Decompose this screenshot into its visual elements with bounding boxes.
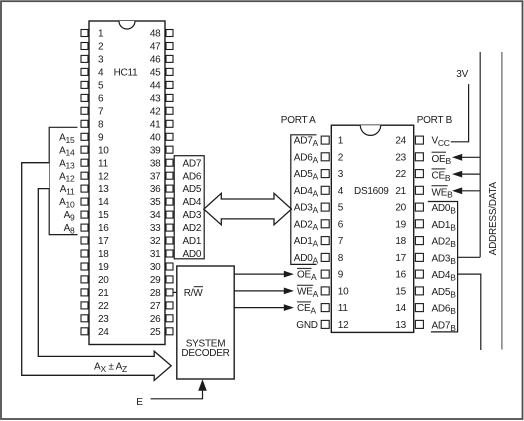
svg-text:AD6A: AD6A	[294, 152, 319, 164]
svg-text:AD5B: AD5B	[432, 287, 457, 299]
svg-text:32: 32	[150, 236, 161, 247]
svg-text:18: 18	[395, 236, 406, 247]
svg-text:3: 3	[98, 55, 104, 66]
svg-text:A9: A9	[64, 210, 75, 222]
svg-text:36: 36	[150, 184, 161, 195]
svg-text:27: 27	[150, 301, 161, 312]
svg-text:16: 16	[395, 270, 406, 281]
net label AD0	[183, 249, 202, 260]
svg-text:11: 11	[338, 303, 349, 314]
wire E to decoder	[151, 379, 207, 399]
svg-text:14: 14	[98, 197, 109, 208]
wire AD4B-AD7B group to bus	[458, 274, 481, 350]
svg-text:24: 24	[395, 136, 406, 147]
net label CEA (port A control)	[297, 302, 316, 316]
svg-text:6: 6	[98, 94, 104, 105]
net label AD1A	[294, 236, 319, 248]
svg-text:34: 34	[150, 210, 161, 221]
svg-text:9: 9	[338, 270, 344, 281]
U2 right pin pads 24-13	[415, 136, 423, 328]
label PORT B	[417, 115, 453, 126]
svg-text:VCC: VCC	[432, 136, 450, 148]
svg-text:46: 46	[150, 55, 161, 66]
svg-text:OEB: OEB	[432, 154, 452, 166]
svg-text:14: 14	[395, 303, 406, 314]
label PORT A	[281, 115, 316, 126]
svg-text:25: 25	[150, 327, 161, 338]
net label GND (port A control)	[296, 320, 318, 331]
address/data bus line 1	[479, 52, 481, 257]
IC U2 DS1609 body	[331, 125, 413, 332]
svg-text:2: 2	[338, 152, 344, 163]
net label AD6	[183, 171, 202, 182]
net label A14	[59, 145, 75, 157]
net label AD6B (port B)	[432, 304, 457, 316]
svg-text:3: 3	[338, 169, 344, 180]
svg-text:33: 33	[150, 223, 161, 234]
bus box AD7-AD0 (HC11 multiplexed bus)	[174, 156, 204, 259]
net label AD3B (port B)	[432, 254, 457, 266]
svg-text:43: 43	[150, 94, 161, 105]
net label AD0A	[294, 253, 319, 265]
svg-text:CEA: CEA	[297, 303, 316, 315]
svg-text:17: 17	[98, 236, 109, 247]
net label OEB (port B)	[432, 152, 452, 166]
net label VCC (port B)	[432, 136, 450, 148]
svg-text:40: 40	[150, 132, 161, 143]
svg-text:11: 11	[98, 158, 109, 169]
net label AD7	[183, 158, 202, 169]
svg-text:28: 28	[150, 288, 161, 299]
svg-text:20: 20	[98, 275, 109, 286]
svg-text:8: 8	[98, 119, 104, 130]
net label A11	[60, 184, 75, 196]
svg-text:44: 44	[150, 81, 161, 92]
svg-text:A15: A15	[59, 132, 75, 144]
net label AD7A	[294, 136, 319, 148]
U1 left pin numbers 1-24	[98, 29, 109, 338]
svg-text:10: 10	[338, 287, 349, 298]
system decoder label	[181, 339, 229, 359]
svg-text:6: 6	[338, 219, 344, 230]
svg-text:AD0B: AD0B	[432, 203, 457, 215]
wire CEA from decoder	[234, 304, 294, 311]
svg-text:39: 39	[150, 145, 161, 156]
svg-text:7: 7	[338, 236, 344, 247]
svg-text:A12: A12	[59, 171, 75, 183]
U2 left pin pads 1-12	[321, 136, 329, 328]
svg-text:48: 48	[150, 29, 161, 40]
net label A13	[59, 158, 75, 170]
bus bracket AD0B-AD7B	[428, 202, 458, 332]
net label AD7B (port B)	[432, 321, 457, 333]
svg-text:19: 19	[98, 262, 109, 273]
svg-text:AD2B: AD2B	[432, 237, 457, 249]
bus bracket AD7A-AD0A	[291, 135, 317, 265]
svg-text:AD3B: AD3B	[432, 254, 457, 266]
power 3V supply	[456, 69, 468, 80]
svg-text:17: 17	[395, 253, 406, 264]
svg-text:4: 4	[338, 186, 344, 197]
net label AD2B (port B)	[432, 237, 457, 249]
svg-text:2: 2	[98, 42, 104, 53]
svg-text:15: 15	[98, 210, 109, 221]
svg-text:16: 16	[98, 223, 109, 234]
svg-text:23: 23	[395, 152, 406, 163]
svg-text:WEB: WEB	[432, 187, 454, 199]
net label A8	[64, 223, 75, 235]
svg-text:AD5: AD5	[183, 184, 202, 195]
svg-text:A10: A10	[59, 197, 75, 209]
svg-text:8: 8	[338, 253, 344, 264]
U1 HC11 label	[114, 68, 139, 79]
net label AD2	[183, 223, 202, 234]
bidirectional data bus arrow	[204, 193, 292, 225]
svg-text:13: 13	[98, 184, 109, 195]
net label AD5	[183, 184, 202, 195]
svg-text:AD6B: AD6B	[432, 304, 457, 316]
net label E	[136, 397, 143, 408]
svg-text:26: 26	[150, 314, 161, 325]
svg-text:AD4: AD4	[183, 197, 202, 208]
svg-text:21: 21	[98, 288, 109, 299]
svg-text:37: 37	[150, 171, 161, 182]
svg-text:A14: A14	[59, 145, 75, 157]
svg-text:19: 19	[395, 219, 406, 230]
net label AD1B (port B)	[432, 220, 457, 232]
net label AD4B (port B)	[432, 270, 457, 282]
net label AX +/- AZ	[94, 362, 127, 374]
svg-text:5: 5	[338, 203, 344, 214]
svg-text:AD4A: AD4A	[294, 186, 319, 198]
wire VCC to 3V	[451, 84, 469, 142]
net label AD1	[183, 236, 202, 247]
svg-text:12: 12	[98, 171, 109, 182]
svg-text:20: 20	[395, 203, 406, 214]
svg-text:AD1: AD1	[183, 236, 202, 247]
svg-text:AD3A: AD3A	[294, 203, 319, 215]
svg-text:A11: A11	[60, 184, 75, 196]
net label A10	[59, 197, 75, 209]
svg-text:AD4B: AD4B	[432, 270, 457, 282]
svg-text:AD7: AD7	[183, 158, 202, 169]
svg-text:13: 13	[395, 320, 406, 331]
net label AD3	[183, 210, 202, 221]
svg-text:DS1609: DS1609	[354, 186, 389, 197]
net label CEB (port B)	[432, 169, 451, 183]
svg-text:AD2: AD2	[183, 223, 202, 234]
net label OEA (port A control)	[297, 268, 317, 282]
svg-text:HC11: HC11	[114, 68, 139, 79]
svg-text:18: 18	[98, 249, 109, 260]
U2 left pin numbers 1-12	[338, 136, 349, 331]
U1 right pin pads 48-25	[166, 30, 173, 335]
wire WEA from decoder	[234, 288, 294, 295]
wire CEB from address/data bus	[452, 171, 480, 178]
svg-text:AD1A: AD1A	[294, 236, 319, 248]
svg-text:AD5A: AD5A	[294, 169, 319, 181]
svg-text:DECODER: DECODER	[181, 348, 229, 359]
wire OEA from decoder	[234, 271, 294, 278]
svg-text:12: 12	[338, 320, 349, 331]
wire address bus + block arrow AX-AZ to system decoder	[22, 163, 172, 381]
net label AD4A	[294, 186, 319, 198]
svg-text:AD1B: AD1B	[432, 220, 457, 232]
wire AD0B-AD3B group to bus	[458, 256, 481, 258]
svg-text:42: 42	[150, 106, 161, 117]
net label AD4	[183, 197, 202, 208]
svg-text:PORT B: PORT B	[417, 115, 453, 126]
net label AD2A	[294, 219, 319, 231]
svg-text:29: 29	[150, 275, 161, 286]
net label R/W (write bar)	[184, 287, 204, 299]
U2 right pin numbers 24-13	[395, 136, 406, 331]
system decoder box	[177, 266, 234, 379]
svg-text:31: 31	[150, 249, 161, 260]
IC U1 HC11 body	[89, 21, 165, 345]
net label A9	[64, 210, 75, 222]
svg-text:23: 23	[98, 314, 109, 325]
svg-text:AD7A: AD7A	[294, 136, 319, 148]
svg-text:E: E	[136, 397, 143, 408]
svg-text:4: 4	[98, 68, 104, 79]
svg-text:GND: GND	[296, 320, 318, 331]
net label AD5A	[294, 169, 319, 181]
svg-text:35: 35	[150, 197, 161, 208]
svg-text:AD0: AD0	[183, 249, 202, 260]
svg-text:21: 21	[395, 186, 406, 197]
svg-text:47: 47	[150, 42, 161, 53]
svg-text:41: 41	[150, 119, 161, 130]
svg-text:AX ± AZ: AX ± AZ	[94, 362, 127, 374]
svg-text:9: 9	[98, 132, 104, 143]
net label AD0B (port B)	[432, 203, 457, 215]
svg-text:1: 1	[338, 136, 344, 147]
svg-text:WEA: WEA	[297, 287, 319, 299]
svg-text:AD3: AD3	[183, 210, 202, 221]
net label AD6A	[294, 152, 319, 164]
svg-text:AD2A: AD2A	[294, 219, 319, 231]
svg-text:AD6: AD6	[183, 171, 202, 182]
net label WEA (port A control)	[297, 285, 319, 299]
svg-text:AD7B: AD7B	[432, 321, 457, 333]
U1 right pin numbers 48-25	[150, 29, 161, 338]
svg-text:22: 22	[395, 169, 406, 180]
U1 left pin pads 1-24	[81, 30, 88, 335]
net label AD3A	[294, 203, 319, 215]
svg-text:7: 7	[98, 106, 104, 117]
net label A15	[59, 132, 75, 144]
svg-text:ADDRESS/DATA: ADDRESS/DATA	[488, 181, 499, 255]
svg-text:3V: 3V	[456, 69, 468, 80]
net label A12	[59, 171, 75, 183]
svg-text:AD0A: AD0A	[294, 253, 319, 265]
net label AD5B (port B)	[432, 287, 457, 299]
wire R/W from pin 28	[173, 291, 177, 293]
net label WEB (port B)	[432, 186, 454, 200]
svg-text:OEA: OEA	[297, 270, 317, 282]
U2 DS1609 label	[354, 186, 389, 197]
svg-text:15: 15	[395, 287, 406, 298]
label ADDRESS/DATA (vertical)	[488, 181, 499, 255]
svg-text:30: 30	[150, 262, 161, 273]
svg-text:22: 22	[98, 301, 109, 312]
svg-text:10: 10	[98, 145, 109, 156]
wire OEB from address/data bus	[452, 154, 480, 161]
svg-text:A8: A8	[64, 223, 75, 235]
svg-text:38: 38	[150, 158, 161, 169]
address/data bus line 2	[501, 52, 503, 350]
wire WEB from address/data bus	[452, 187, 480, 194]
svg-text:45: 45	[150, 68, 161, 79]
svg-text:5: 5	[98, 81, 104, 92]
bus bracket A15-A8	[49, 127, 77, 234]
svg-text:PORT A: PORT A	[281, 115, 316, 126]
svg-text:A13: A13	[59, 158, 75, 170]
svg-text:24: 24	[98, 327, 109, 338]
svg-text:R/W: R/W	[184, 288, 204, 299]
svg-text:CEB: CEB	[432, 171, 451, 183]
svg-text:1: 1	[98, 29, 104, 40]
